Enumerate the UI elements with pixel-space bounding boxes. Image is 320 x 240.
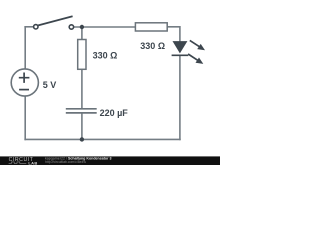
switch SW1 (open SPST) bbox=[34, 16, 74, 29]
wire: left vertical rail (top half, corner to source) bbox=[24, 26, 26, 69]
voltage source V1 (circle) bbox=[11, 69, 38, 96]
resistor R2 (horizontal) bbox=[135, 23, 167, 31]
svg-text:5 V: 5 V bbox=[43, 80, 57, 90]
resistor R1 (vertical) bbox=[78, 40, 86, 70]
wire: top-left horizontal from left rail to switch bbox=[24, 26, 33, 28]
watermark bar background bbox=[0, 156, 220, 165]
wire: node A down to R1 top bbox=[81, 27, 83, 40]
wire: switch output to R2 left terminal bbox=[74, 26, 136, 28]
CircuitLab logo: waveform trace bbox=[9, 162, 27, 164]
svg-text:LAB: LAB bbox=[28, 161, 37, 166]
capacitor C1 (two plates) bbox=[66, 109, 97, 113]
LED emission arrow 1 bbox=[190, 40, 205, 50]
node B junction dot (capacitor to bottom rail) bbox=[80, 137, 84, 141]
wire: capacitor bottom plate to bottom rail bbox=[81, 113, 83, 139]
LED emission arrow 2 bbox=[188, 54, 203, 64]
wire: R2 right terminal to corner and down to LED anode bbox=[167, 27, 180, 42]
wire: left vertical rail (bottom half, source to bottom rail) bbox=[24, 96, 26, 140]
LED D1 (triangle + cathode bar) bbox=[172, 41, 189, 55]
wire: bottom horizontal rail bbox=[24, 138, 180, 140]
svg-text:330 Ω: 330 Ω bbox=[93, 50, 118, 60]
wire: R1 bottom to capacitor top plate bbox=[81, 69, 83, 109]
wire: right vertical rail (bottom rail up to LED cathode) bbox=[179, 56, 181, 141]
svg-text:http://circuitlab.com/c/8e4w: http://circuitlab.com/c/8e4w bbox=[45, 160, 86, 164]
svg-text:330 Ω: 330 Ω bbox=[140, 41, 165, 51]
svg-text:220 µF: 220 µF bbox=[100, 108, 129, 118]
node A junction dot (switch / R1 / R2) bbox=[80, 25, 84, 29]
